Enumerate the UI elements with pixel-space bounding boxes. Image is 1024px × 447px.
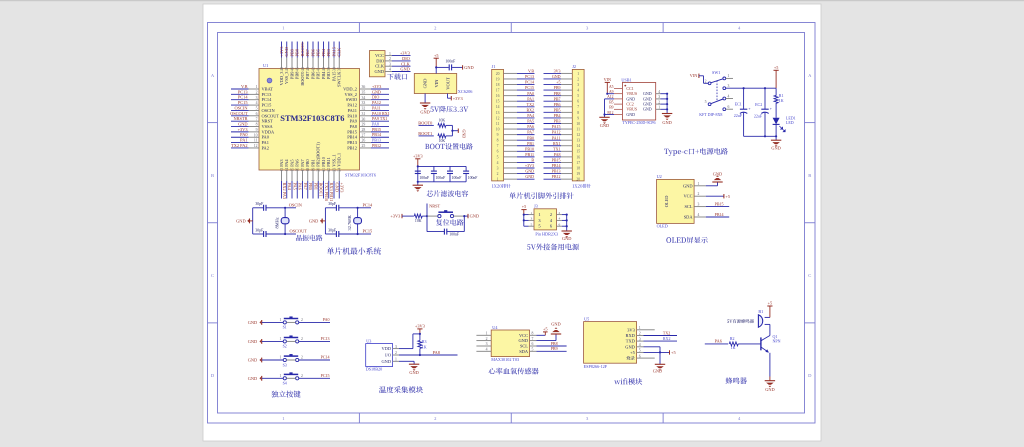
svg-text:2: 2: [301, 374, 303, 378]
svg-text:GND: GND: [643, 107, 652, 112]
svg-text:U1: U1: [263, 63, 268, 68]
max30102 right pin 5 SDA: [519, 348, 536, 354]
svg-text:40: 40: [322, 67, 326, 71]
mcu U1 top pin 38 PA15: [331, 42, 336, 82]
svg-text:OSCOUT: OSCOUT: [290, 229, 308, 234]
svg-text:VOUT: VOUT: [446, 77, 451, 90]
svg-text:PB9: PB9: [551, 346, 558, 351]
net label PA6 (buzzer input): [705, 339, 728, 344]
caption 5V降压3.3V: [430, 106, 468, 112]
svg-text:14: 14: [496, 105, 500, 109]
svg-text:PA10: PA10: [347, 113, 357, 118]
svg-text:PA5: PA5: [289, 159, 294, 167]
mcu U1 left pin 6 OSCOUT: [230, 111, 279, 119]
svg-text:VSS_3: VSS_3: [284, 71, 289, 84]
svg-text:B: B: [211, 173, 214, 178]
svg-text:+5: +5: [671, 350, 676, 355]
header J1 pin 8 net PB0: [497, 135, 535, 142]
ground flag GND (Y2): [309, 218, 326, 223]
svg-text:100nF: 100nF: [449, 233, 459, 237]
download header pin 3 CLK: [375, 61, 410, 68]
net label PB8 (max30102 SCL): [537, 341, 567, 346]
svg-text:GND: GND: [236, 218, 245, 223]
svg-text:SWCLK: SWCLK: [337, 71, 342, 87]
svg-text:GND: GND: [461, 130, 466, 139]
regulator XC6206 body: [414, 74, 473, 94]
svg-text:GND: GND: [248, 376, 257, 381]
svg-text:GND: GND: [284, 47, 289, 56]
header J2 pin 3 net +5: [544, 80, 580, 87]
net label BOOT0: [418, 120, 434, 125]
svg-text:MAX30102 T03: MAX30102 T03: [491, 357, 519, 362]
svg-text:PB12: PB12: [372, 143, 381, 148]
svg-text:J2: J2: [572, 64, 576, 69]
net NRST (reset node): [426, 203, 441, 217]
header J2 pin 11 net PA15: [544, 124, 581, 131]
svg-text:1: 1: [658, 106, 660, 110]
svg-text:6: 6: [577, 100, 579, 104]
download header pin 1 VCC: [375, 51, 411, 58]
net label PB9 (max30102 SDA): [537, 346, 567, 351]
svg-text:PB6: PB6: [554, 102, 561, 107]
ground flag GND (regulator input cap): [463, 65, 474, 70]
svg-text:2: 2: [301, 318, 303, 322]
svg-text:J3: J3: [534, 204, 538, 209]
svg-text:PB1: PB1: [310, 159, 315, 167]
net label RX2 (esp TXD): [644, 336, 678, 341]
svg-text:GND: GND: [525, 174, 534, 179]
svg-text:C: C: [808, 273, 811, 278]
wire VOUT to +3V3: [448, 94, 452, 99]
header J1 pin 6 net PB10: [497, 146, 535, 153]
svg-text:8MHz: 8MHz: [275, 217, 280, 228]
svg-text:VCC: VCC: [375, 53, 384, 58]
caption OLED屏显示: [666, 237, 707, 244]
node OSCOUT (Y1): [284, 229, 307, 235]
power flag +5 (power circuit): [774, 65, 779, 88]
power flag +3V3 (regulator output): [451, 96, 462, 101]
svg-text:5: 5: [497, 155, 499, 159]
header J1 pin 15 net PA1: [496, 96, 535, 103]
svg-text:GND: GND: [470, 214, 479, 219]
header J1 pin 19 net PC13: [496, 74, 535, 81]
capacitor C bottom 30pF (Y1): [255, 228, 266, 237]
header J2 pin 1 net 3V3: [544, 69, 580, 76]
svg-text:PA12: PA12: [372, 100, 381, 105]
caption 温度采集模块: [379, 386, 423, 393]
svg-text:PB1: PB1: [527, 141, 534, 146]
svg-text:VCC: VCC: [519, 333, 528, 338]
svg-text:+3V3: +3V3: [390, 214, 400, 219]
ground (power circuit): [771, 140, 781, 150]
usb USB1 right GND pin 1: [643, 106, 668, 112]
svg-text:2: 2: [698, 192, 700, 196]
svg-text:7: 7: [577, 105, 579, 109]
svg-text:OSCIN: OSCIN: [262, 108, 276, 113]
svg-text:B1: B1: [758, 309, 763, 314]
svg-text:32.768K: 32.768K: [347, 214, 352, 230]
svg-text:13: 13: [280, 168, 284, 172]
svg-text:PB9: PB9: [289, 71, 294, 79]
wire backup GND rail: [566, 214, 568, 232]
svg-text:18: 18: [306, 168, 310, 172]
esp8266 U5 body: [584, 316, 637, 363]
svg-text:GND: GND: [372, 89, 381, 94]
svg-text:6: 6: [497, 150, 499, 154]
svg-text:C: C: [211, 273, 214, 278]
mcu U1 left pin 3 PC14: [231, 95, 272, 103]
usb USB1 left pin A9 VBUS: [609, 90, 637, 96]
button S3: [280, 355, 304, 367]
svg-text:GND: GND: [420, 110, 429, 115]
svg-text:DS18B20: DS18B20: [366, 366, 383, 371]
svg-text:PB14: PB14: [372, 132, 381, 137]
svg-text:2: 2: [639, 332, 641, 336]
header J2 pin 20 net PB12: [544, 174, 581, 181]
svg-text:9: 9: [577, 116, 579, 120]
svg-text:21: 21: [322, 168, 326, 172]
svg-text:+5: +5: [768, 301, 772, 306]
svg-text:PB10: PB10: [525, 146, 534, 151]
ground (oled) flipped: [712, 172, 722, 182]
svg-text:PB0: PB0: [308, 183, 313, 191]
svg-text:PB7: PB7: [554, 96, 561, 101]
svg-text:PA9: PA9: [350, 119, 358, 124]
wire esp pin6: [644, 357, 655, 359]
svg-text:PB15: PB15: [372, 127, 381, 132]
svg-text:GND: GND: [552, 74, 561, 79]
max30102 right pin 6 SCL: [520, 342, 537, 348]
svg-text:OLED: OLED: [664, 196, 669, 208]
svg-text:16: 16: [496, 94, 500, 98]
svg-text:9: 9: [497, 133, 499, 137]
svg-text:GND: GND: [422, 78, 427, 88]
mcu U1 right pin 35 VSS_2: [345, 89, 389, 97]
oled U2 pin 3 SCL: [684, 203, 705, 210]
svg-text:7: 7: [532, 337, 534, 341]
svg-text:5: 5: [532, 348, 534, 352]
max30102 left pin 3: [476, 342, 491, 346]
svg-text:23: 23: [332, 168, 336, 172]
svg-text:18: 18: [496, 83, 500, 87]
power flag +5 (buzzer): [767, 301, 772, 318]
svg-text:17: 17: [301, 168, 305, 172]
node OSCIN (Y1): [284, 202, 303, 209]
svg-text:GND: GND: [518, 338, 528, 343]
svg-text:PB1: PB1: [313, 183, 318, 191]
svg-text:6: 6: [559, 222, 561, 226]
svg-text:S2: S2: [283, 345, 287, 349]
svg-text:RX3 PB11: RX3 PB11: [329, 183, 334, 202]
svg-text:28: 28: [362, 128, 366, 132]
caption 单片机最小系统: [327, 247, 381, 254]
svg-text:17: 17: [496, 89, 500, 93]
caption 复位电路: [436, 219, 463, 225]
svg-text:PB14: PB14: [347, 135, 358, 140]
usb USB1 right GND pin 2: [643, 100, 668, 106]
svg-text:BOOT1: BOOT1: [418, 131, 432, 136]
svg-text:PB12: PB12: [552, 174, 561, 179]
svg-text:VDDA: VDDA: [262, 129, 276, 134]
svg-text:1: 1: [280, 356, 282, 360]
svg-text:47: 47: [285, 67, 289, 71]
esp8266 pin 6 SL: [637, 354, 644, 358]
svg-text:14: 14: [285, 168, 289, 172]
caption 单片机引脚外引排针: [509, 192, 573, 199]
svg-text:BOOT0: BOOT0: [418, 120, 432, 125]
switch SW1 value KFT DIP-8X8: [699, 112, 722, 117]
capacitor C top 30pF (Y1): [255, 202, 266, 211]
svg-text:OSCIN: OSCIN: [289, 202, 303, 207]
wire I/O to PA8: [399, 350, 458, 356]
oled U2 value OLED: [657, 224, 668, 229]
svg-text:TYPEC-250D-9CP6: TYPEC-250D-9CP6: [622, 120, 655, 125]
svg-text:TX2: TX2: [527, 102, 534, 107]
svg-text:GND: GND: [464, 65, 473, 70]
esp8266 pin 1 3V3: [627, 326, 643, 332]
usb USB1 value TYPEC-250D-9CP6: [622, 120, 655, 125]
svg-text:4: 4: [256, 101, 258, 105]
mcu U1 right pin 28 PB15: [347, 127, 389, 135]
mcu U1 top pin 45 PB8: [295, 42, 300, 80]
caption 5V外接备用电源: [527, 244, 579, 251]
mcu U1 top pin 37 SWCLK: [337, 42, 342, 87]
caption wifi模块: [614, 378, 642, 385]
svg-text:PA8: PA8: [350, 124, 358, 129]
mcu U1 bottom pin 23 VSS_1: [331, 154, 339, 198]
ground flag GND (button S4): [248, 376, 283, 381]
power flag +3V3 (filter caps): [413, 153, 423, 166]
svg-text:6: 6: [256, 112, 258, 116]
power flag +5 (regulator input): [434, 53, 439, 68]
svg-text:2: 2: [256, 90, 258, 94]
caption Type-c口+电源电路: [664, 148, 728, 156]
svg-text:17: 17: [576, 161, 580, 165]
svg-text:SCL: SCL: [520, 344, 528, 349]
svg-text:TX2 PA2: TX2 PA2: [231, 143, 247, 148]
mcu U1 bottom pin 16 PA6: [295, 159, 303, 199]
svg-text:VDD_2: VDD_2: [343, 87, 357, 92]
svg-text:GND: GND: [562, 236, 571, 241]
mcu U1 bottom pin 17 PA7: [300, 159, 308, 199]
svg-text:GND: GND: [248, 358, 257, 363]
svg-text:3: 3: [658, 95, 660, 99]
resistor 10K (BOOT0): [438, 119, 453, 128]
svg-text:5: 5: [577, 94, 579, 98]
svg-text:PC15: PC15: [363, 229, 373, 234]
button S4: [280, 373, 304, 385]
caption 下载口: [387, 73, 407, 79]
svg-text:PC13: PC13: [525, 74, 534, 79]
usb USB1 right GND pin 4: [643, 90, 668, 96]
header J3 pin 6 right: [550, 222, 567, 228]
svg-text:12: 12: [576, 133, 580, 137]
svg-text:19: 19: [311, 168, 315, 172]
svg-text:PA4: PA4: [284, 159, 289, 167]
svg-text:PC13: PC13: [238, 89, 248, 94]
svg-text:PB3: PB3: [326, 49, 331, 57]
svg-text:27: 27: [362, 133, 366, 137]
svg-text:PB5: PB5: [316, 71, 321, 79]
svg-text:PB4: PB4: [321, 71, 326, 79]
svg-text:PB15: PB15: [552, 158, 561, 163]
svg-text:1: 1: [728, 74, 730, 78]
mcu U1 bottom pin 22 PB11: [326, 157, 334, 201]
svg-text:100nF: 100nF: [452, 176, 462, 180]
svg-text:GND: GND: [662, 120, 671, 125]
usb USB1 left pin A5 CC1: [609, 85, 634, 91]
svg-text:3: 3: [389, 62, 391, 66]
svg-text:NPN: NPN: [773, 338, 781, 343]
header J1 pin 14 net TX2: [496, 102, 535, 109]
svg-text:PA5: PA5: [527, 119, 534, 124]
download header pin 4 GND: [374, 67, 410, 74]
svg-text:3: 3: [256, 96, 258, 100]
svg-text:PC15: PC15: [321, 373, 330, 378]
crystal Y2 32.768K symbol: [347, 208, 362, 234]
svg-text:11: 11: [496, 122, 500, 126]
svg-text:12: 12: [496, 116, 500, 120]
svg-text:1K: 1K: [731, 345, 736, 350]
svg-text:15: 15: [576, 150, 580, 154]
svg-text:PC14: PC14: [262, 97, 273, 102]
ground (regulator): [420, 103, 430, 115]
wire VCC to +5 (max30102): [537, 332, 546, 335]
svg-text:11: 11: [254, 139, 258, 143]
svg-text:+3V3: +3V3: [413, 153, 423, 158]
svg-text:4: 4: [559, 217, 561, 221]
header J2 pin 16 net PA8: [544, 152, 581, 159]
svg-text:8: 8: [532, 332, 534, 336]
svg-text:4: 4: [389, 68, 391, 72]
svg-text:OSCOUT: OSCOUT: [230, 111, 248, 116]
svg-text:PB9: PB9: [554, 85, 561, 90]
svg-text:30pF: 30pF: [328, 228, 336, 232]
svg-text:PC14: PC14: [525, 80, 534, 85]
crystal Y2 32.768K network wires: [325, 208, 371, 234]
svg-text:8: 8: [256, 123, 258, 127]
svg-text:100nF: 100nF: [446, 60, 456, 64]
svg-text:2: 2: [301, 337, 303, 341]
svg-text:3: 3: [486, 342, 488, 346]
svg-text:PB7: PB7: [305, 71, 310, 79]
svg-text:9: 9: [256, 128, 258, 132]
svg-text:+5: +5: [774, 65, 778, 70]
svg-text:30pF: 30pF: [328, 202, 336, 206]
zone numbers: [211, 25, 812, 421]
svg-text:2: 2: [559, 211, 561, 215]
header J1 pin 17 net PC15: [496, 85, 535, 92]
mcu U1 right pin 31 PA10: [347, 111, 389, 119]
svg-text:30pF: 30pF: [255, 202, 263, 206]
svg-text:GND: GND: [683, 183, 693, 188]
svg-text:GND: GND: [409, 370, 418, 375]
inner border frame: [218, 33, 805, 414]
svg-text:+3V3: +3V3: [453, 96, 463, 101]
header J3 pin 2 right: [550, 211, 567, 217]
wire Q1 emitter to ground: [769, 353, 771, 381]
wire button S2 to PC13: [299, 336, 330, 341]
svg-text:OSCOUT: OSCOUT: [262, 113, 280, 118]
svg-text:S4: S4: [283, 382, 287, 386]
svg-text:PA6: PA6: [715, 339, 723, 344]
crystal Y1 8MHz network wires: [253, 208, 296, 234]
capacitor 100nF (filter 4): [463, 171, 477, 180]
svg-text:PB3: PB3: [554, 119, 561, 124]
mcu U1 left pin 12 PA2: [231, 143, 269, 151]
svg-text:PA1: PA1: [262, 140, 269, 145]
svg-text:+5: +5: [556, 80, 560, 85]
header J2 pin 7 net PB6: [544, 102, 580, 109]
svg-text:PB8: PB8: [554, 91, 561, 96]
max30102 right pin 7 GND: [518, 337, 536, 343]
svg-text:CLK: CLK: [375, 64, 385, 69]
svg-text:PC14: PC14: [238, 95, 248, 100]
svg-text:PA7: PA7: [300, 159, 305, 167]
ground (max30102) flipped: [551, 321, 561, 334]
svg-text:10K: 10K: [439, 139, 446, 143]
svg-text:OSCIN: OSCIN: [234, 105, 248, 110]
mcu U1 bottom pin 18 PB0: [305, 158, 313, 198]
max30102 left pin 4: [476, 348, 491, 352]
svg-text:PB5: PB5: [554, 107, 561, 112]
reset loop + capacitor 100nF: [427, 215, 465, 237]
svg-text:6: 6: [639, 354, 641, 358]
header J2 pin 13 net PA11: [544, 135, 581, 142]
max30102 right pin 8 VCC: [519, 332, 537, 338]
mcu U1 left pin 11 PA1: [231, 138, 269, 146]
svg-text:1: 1: [389, 52, 391, 56]
svg-text:XC6206: XC6206: [458, 89, 473, 94]
svg-text:3: 3: [728, 84, 730, 88]
svg-text:GND: GND: [771, 145, 780, 150]
svg-text:NRST: NRST: [429, 203, 440, 208]
svg-text:PA12: PA12: [347, 103, 357, 108]
svg-text:3: 3: [395, 345, 397, 349]
power flag +5 (backup header): [521, 204, 526, 214]
svg-text:PA9 TX1: PA9 TX1: [372, 116, 387, 121]
ground (filter caps): [413, 185, 423, 192]
svg-text:1: 1: [538, 212, 540, 217]
svg-text:3V3: 3V3: [627, 327, 635, 332]
svg-text:U2: U2: [657, 174, 662, 179]
svg-text:36: 36: [362, 85, 366, 89]
svg-text:100nF: 100nF: [436, 176, 446, 180]
svg-text:12: 12: [254, 144, 258, 148]
power flag +5 (esp8266): [670, 350, 676, 355]
led LED1: [773, 116, 796, 137]
svg-text:GND: GND: [625, 344, 635, 349]
svg-text:PA7: PA7: [527, 130, 534, 135]
svg-text:PC13: PC13: [321, 336, 330, 341]
svg-text:SCL: SCL: [684, 204, 692, 209]
wire usb VBUS to VIN: [606, 93, 614, 95]
mcu U1 right pin 34 SWIO: [346, 95, 389, 103]
svg-text:+3V3: +3V3: [525, 163, 534, 168]
svg-text:10: 10: [254, 133, 258, 137]
caption 芯片滤波电容: [427, 190, 469, 196]
svg-text:4: 4: [639, 343, 641, 347]
header J1 pin 9 net PA7: [497, 130, 535, 137]
svg-text:46: 46: [290, 67, 294, 71]
wire VIN node: [435, 66, 449, 73]
switch SW1: [705, 70, 733, 111]
ds18b20 U3 body: [366, 338, 393, 366]
header J2 pin 8 net PB5: [544, 107, 580, 114]
svg-text:GND: GND: [248, 320, 257, 325]
ground (usb left): [599, 117, 609, 128]
header J1 pin 5 net PB11: [497, 152, 535, 159]
